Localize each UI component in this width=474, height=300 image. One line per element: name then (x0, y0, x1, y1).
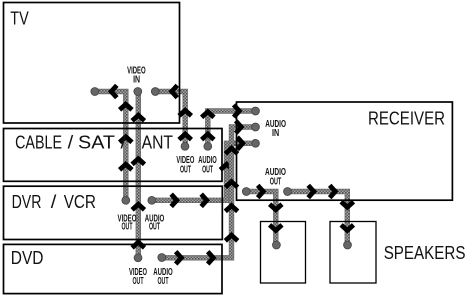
wire W6: DVD AUDIO OUT to RECEIVER AUDIO IN 2 (162, 121, 256, 264)
svg-text:OUT: OUT (270, 176, 282, 187)
label RECEIVER AUDIO OUT (265, 167, 286, 188)
terminal dot RECEIVER AUDIO OUT 1 (242, 188, 250, 196)
svg-text:OUT: OUT (122, 222, 133, 233)
svg-text:OUT: OUT (133, 276, 144, 287)
box speaker left (261, 222, 306, 284)
svg-text:SPEAKERS: SPEAKERS (384, 242, 466, 263)
terminal dot RECEIVER AUDIO IN 2 (252, 123, 260, 131)
svg-text:/: / (68, 131, 74, 152)
svg-text:/: / (121, 131, 127, 152)
terminal dot DVD VIDEO OUT (134, 254, 142, 262)
svg-text:DVD: DVD (11, 247, 44, 268)
terminal dot RECEIVER AUDIO IN 1 (252, 107, 260, 115)
wire W3: CABLE VIDEO OUT up to TV input 3 (155, 85, 191, 146)
svg-text:DVR: DVR (12, 191, 42, 212)
terminal dot CABLE VIDEO OUT (181, 142, 189, 150)
svg-text:OUT: OUT (202, 165, 213, 176)
svg-text:VCR: VCR (64, 191, 96, 212)
label DVR VIDEO OUT (118, 213, 137, 232)
svg-text:SAT: SAT (78, 131, 115, 152)
label DVR AUDIO OUT (145, 213, 165, 232)
label DVD AUDIO OUT (153, 267, 173, 287)
label CABLE VIDEO OUT (176, 155, 194, 176)
box CABLE / SAT / ANT (4, 129, 223, 182)
wire W2: DVD VIDEO OUT up to TV VIDEO IN (132, 92, 144, 258)
box RECEIVER (237, 102, 453, 200)
label CABLE AUDIO OUT (198, 155, 217, 176)
wire W5: DVR AUDIO OUT to RECEIVER AUDIO IN 3 (152, 137, 256, 206)
box speaker right (330, 222, 376, 284)
svg-text:OUT: OUT (158, 276, 169, 287)
terminal dot TV input 3 (151, 88, 159, 96)
box TV (4, 3, 180, 124)
wire W7: RECEIVER AUDIO OUT to left speaker (246, 185, 282, 245)
terminal dot CABLE AUDIO OUT (204, 142, 212, 150)
terminal dot DVR AUDIO OUT (148, 196, 156, 204)
terminal dot DVR VIDEO OUT (122, 196, 130, 204)
label DVD VIDEO OUT (129, 267, 147, 287)
svg-text:ANT: ANT (142, 131, 173, 152)
terminal dot RECEIVER AUDIO IN 3 (252, 139, 260, 147)
svg-text:IN: IN (272, 128, 279, 139)
svg-text:TV: TV (10, 8, 29, 29)
terminal dot left speaker input (273, 241, 281, 249)
box DVD (4, 244, 223, 293)
svg-text:IN: IN (133, 75, 140, 86)
wire W1: DVR VIDEO OUT up to TV input 1 (95, 85, 132, 200)
box DVR / VCR (4, 186, 223, 239)
terminal dot RECEIVER AUDIO OUT 2 (284, 188, 292, 196)
terminal dot right speaker input (344, 241, 352, 249)
terminal dot TV input 1 (91, 88, 99, 96)
wire W4: CABLE AUDIO OUT to RECEIVER AUDIO IN 1 (202, 105, 256, 147)
terminal dot TV VIDEO IN (134, 88, 142, 96)
svg-text:/: / (51, 191, 57, 212)
label TV VIDEO IN (127, 65, 146, 85)
terminal dot DVD AUDIO OUT (158, 254, 166, 262)
svg-text:CABLE: CABLE (15, 131, 62, 152)
wire W8: RECEIVER AUDIO OUT to right speaker (288, 185, 354, 245)
svg-text:OUT: OUT (149, 222, 160, 233)
label RECEIVER AUDIO IN (265, 119, 286, 139)
svg-text:RECEIVER: RECEIVER (368, 107, 445, 128)
svg-text:OUT: OUT (180, 165, 191, 176)
